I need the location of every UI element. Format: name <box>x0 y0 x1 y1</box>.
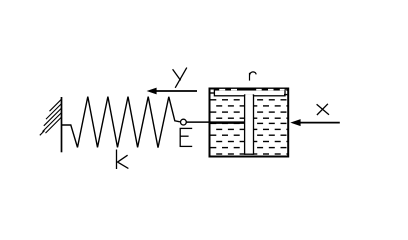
arrow y <box>153 90 197 92</box>
wire: rod segment inside cylinder (merged with fluid row) <box>210 122 245 124</box>
label k <box>117 150 129 170</box>
damper cylinder r <box>210 89 289 157</box>
open joint between plate and rod <box>245 94 252 96</box>
damper fluid (dashes) <box>210 90 287 154</box>
fluid dashes beside plate <box>211 92 215 94</box>
node E (pin circle) <box>181 119 187 125</box>
arrow x <box>299 122 340 124</box>
white nicks in top band <box>219 89 284 91</box>
piston rod (vertical bar) <box>245 95 254 154</box>
label E <box>180 128 193 146</box>
label r <box>250 72 257 81</box>
piston plate (horizontal bar) <box>214 90 285 96</box>
label y <box>173 68 187 88</box>
wall hatching <box>40 99 62 135</box>
label x <box>317 104 329 115</box>
spring k <box>62 97 180 148</box>
wire: rod from node E to piston <box>186 121 245 123</box>
wall <box>61 97 63 152</box>
